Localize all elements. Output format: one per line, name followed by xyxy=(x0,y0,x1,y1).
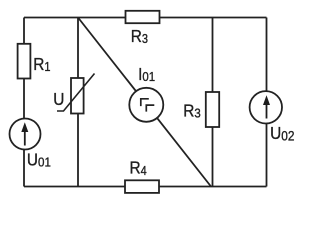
svg-text:R1: R1 xyxy=(33,55,50,74)
svg-text:I01: I01 xyxy=(138,65,155,84)
svg-text:U02: U02 xyxy=(270,124,294,143)
svg-text:U: U xyxy=(53,90,64,109)
svg-text:R3: R3 xyxy=(183,102,201,121)
svg-text:R4: R4 xyxy=(130,159,148,178)
svg-text:R3: R3 xyxy=(131,27,149,46)
svg-text:U01: U01 xyxy=(27,150,51,169)
